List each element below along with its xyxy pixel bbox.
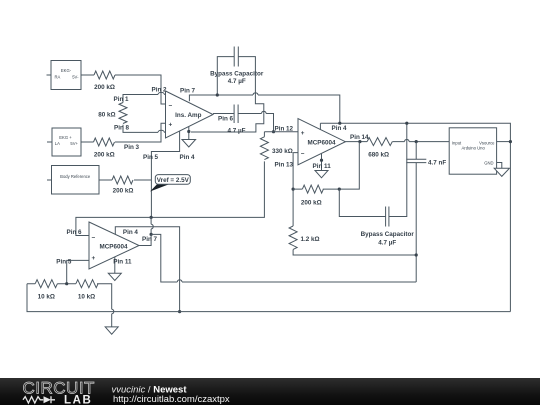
wire 5V bottom rail (27, 284, 510, 312)
svg-text:LA: LA (55, 141, 60, 146)
junction dot C1/Pin7 (216, 93, 219, 96)
wire 330k bottom to Vref rail (151, 161, 264, 217)
wire C2 to U2 + input (hops ground jog) (238, 114, 273, 132)
logo resistor squiggle (23, 397, 43, 403)
svg-text:MCP6004: MCP6004 (307, 140, 335, 147)
wire Pin 1 (80k top to inverting node) (123, 95, 171, 103)
wire 4.7nF bottom leg to Vref rail (415, 163, 417, 282)
svg-text:Pin 6: Pin 6 (218, 116, 234, 123)
wire U2 output Pin 14 (345, 134, 369, 141)
svg-text:LAB: LAB (64, 395, 92, 405)
junction dot U3 supply/5V rail (178, 310, 181, 313)
resistor R6 680k (367, 138, 392, 159)
wire Pin 8 (80k bottom to non-inverting node) (123, 125, 171, 133)
FOOTER (0, 378, 540, 405)
svg-text:Vref = 2.5V: Vref = 2.5V (157, 177, 190, 184)
svg-text:Pin 11: Pin 11 (313, 163, 332, 170)
junction dot Vsource/5V rail (509, 140, 512, 143)
voltage source EKG- (RA electrode) (47, 61, 82, 90)
wire Vsource to 5V rail (497, 141, 511, 143)
op-amp U1 Ins. Amp (166, 91, 214, 138)
svg-text:200 kΩ: 200 kΩ (301, 200, 322, 207)
svg-text:+: + (169, 122, 173, 129)
svg-text:GND: GND (484, 160, 493, 165)
resistor R1 200k (EKG- input) (94, 71, 115, 91)
capacitor C3 bypass 4.7uF (stage 2) (361, 207, 415, 247)
capacitor C1 bypass 4.7uF (210, 47, 264, 85)
wire hop Vref rail over U3 supply leg (177, 280, 182, 282)
svg-text:MCP6004: MCP6004 (99, 243, 127, 250)
svg-text:4.7 µF: 4.7 µF (378, 240, 396, 247)
svg-text:330 kΩ: 330 kΩ (272, 148, 293, 155)
voltage source EKG+ (LA electrode) (47, 128, 81, 156)
svg-text:Arduino Uno: Arduino Uno (462, 146, 486, 151)
svg-text:80 kΩ: 80 kΩ (98, 112, 115, 119)
junction dot 4.7nF top (415, 140, 418, 143)
junction dot Pin13/200k (292, 188, 295, 191)
svg-text:680 kΩ: 680 kΩ (368, 151, 389, 158)
resistor R10 10k (76, 280, 98, 301)
svg-text:Pin 6: Pin 6 (67, 229, 83, 236)
svg-text:+: + (92, 255, 96, 262)
wire R3 to Pin3 corner (with hop over Pin8 wire) (115, 123, 166, 142)
wire bypass2 right leg up to V+ rail (389, 123, 407, 216)
wire Pin 6 feedback (U3 - input from Vref rail) (67, 217, 152, 236)
svg-text:Pin 7: Pin 7 (142, 236, 158, 243)
junction dot bypass2/V+ rail (405, 122, 408, 125)
wire 4.7nF top leg (415, 142, 417, 160)
svg-text:Body Reference: Body Reference (60, 174, 91, 179)
op-amp U2 MCP6004 (stage 2) (298, 119, 345, 165)
voltage source Body Reference (47, 166, 99, 195)
ground GND3 (Arduino) (494, 163, 509, 177)
svg-text:Pin 11: Pin 11 (113, 258, 132, 265)
junction dot Vref rail / 1.2k wire (415, 253, 418, 256)
resistor R2 80k (gain set) (98, 103, 127, 124)
svg-text:200 kΩ: 200 kΩ (113, 188, 134, 195)
wire Pin 13 (U2 - input) (275, 153, 299, 226)
svg-text:Pin 1: Pin 1 (114, 96, 130, 103)
svg-text:200 kΩ: 200 kΩ (94, 151, 115, 158)
flag Vref = 2.5V (150, 175, 190, 192)
wire Pin 5 (U3 + input from divider) (56, 258, 89, 283)
wire 1.2k bottom to Vref rail (293, 250, 416, 256)
svg-text:10 kΩ: 10 kΩ (38, 294, 55, 301)
svg-text:Pin 12: Pin 12 (275, 126, 294, 133)
wire 680k to Arduino Input (hops bypass vertical) (392, 141, 449, 143)
wire hop over output wire (262, 111, 267, 113)
ground GND5 (divider bottom) (105, 327, 118, 334)
svg-text:4.7 nF: 4.7 nF (428, 159, 446, 166)
wire U1 output Pin 6 to C2 (213, 113, 234, 115)
svg-text:EKG +: EKG + (59, 135, 72, 140)
junction dot output/feedback (358, 140, 361, 143)
resistor R3 200k (EKG+ input) (94, 138, 115, 158)
svg-text:http://circuitlab.com/czaxtpx: http://circuitlab.com/czaxtpx (113, 394, 230, 405)
svg-text:200 kΩ: 200 kΩ (94, 84, 115, 91)
wire hop over bypass riser (405, 140, 410, 142)
wire 330k top lead (263, 132, 265, 137)
resistor R7 200k (feedback) (301, 185, 324, 206)
wire EKG+ box to R3 (81, 141, 94, 143)
junction dot Vref rail left (150, 216, 153, 219)
resistor R9 10k (35, 280, 57, 301)
svg-text:Pin 5: Pin 5 (56, 258, 72, 265)
svg-text:+: + (301, 130, 305, 137)
wire EKG- box to R1 (81, 74, 94, 76)
wire U3 output Pin 7 (139, 234, 158, 245)
wire R4 to Vref node (134, 179, 151, 181)
ground GND1 (U1 Pin 4) (180, 127, 196, 162)
capacitor C4 4.7nF (406, 159, 446, 166)
svg-text:Input: Input (452, 140, 462, 145)
junction dot U3 output node (150, 233, 153, 236)
svg-text:5V+: 5V+ (70, 141, 78, 146)
svg-text:4.7 µF: 4.7 µF (228, 78, 246, 85)
logo diode symbol (44, 396, 52, 403)
wire R1 to Pin2 corner (with hop over Pin1 wire) (115, 75, 166, 104)
wire Vref rail down (hops U3 supply wire) (150, 217, 152, 234)
svg-text:Pin 7: Pin 7 (180, 88, 196, 95)
resistor R5 330k (bias to Vref) (260, 137, 292, 160)
wire Pin 4 (U2 V+ supply rail to Arduino Vsource) (320, 123, 510, 311)
capacitor C2 4.7uF (AC coupling) (218, 105, 246, 135)
svg-text:10 kΩ: 10 kΩ (78, 294, 95, 301)
svg-text:Pin 13: Pin 13 (275, 161, 294, 168)
svg-text:5V-: 5V- (72, 74, 79, 79)
svg-text:4.7 µF: 4.7 µF (228, 127, 246, 134)
ground GND4 (U3 Pin 11) (108, 257, 132, 281)
resistor R4 200k (body reference) (112, 176, 133, 195)
svg-text:Bypass Capacitor: Bypass Capacitor (361, 231, 415, 238)
junction dot feedback/bypass2 (338, 188, 341, 191)
block Arduino Uno (449, 128, 496, 174)
ground GND2 (U2 Pin 11) (313, 154, 332, 178)
wire 200k feedback to output (293, 142, 359, 190)
svg-text:Pin 4: Pin 4 (123, 229, 139, 236)
svg-text:1.2 kΩ: 1.2 kΩ (301, 236, 320, 243)
svg-text:−: − (301, 150, 305, 157)
svg-text:RA: RA (55, 74, 61, 79)
junction dot Pin7 supply joins V+ rail (338, 122, 341, 125)
svg-text:Pin 4: Pin 4 (332, 125, 348, 132)
junction dot divider midpoint (65, 282, 68, 285)
resistor R8 1.2k (289, 226, 319, 249)
op-amp U3 MCP6004 (Vref buffer) (89, 222, 139, 269)
svg-text:Pin 8: Pin 8 (114, 125, 130, 132)
svg-text:Pin 3: Pin 3 (124, 144, 140, 151)
wire hop divider-gnd over 5V rail (112, 309, 114, 314)
svg-text:Pin 4: Pin 4 (180, 154, 196, 161)
svg-text:−: − (169, 103, 173, 110)
wire BodyRef box to R4 (99, 179, 112, 181)
wire bypass2 left leg (339, 189, 385, 216)
wire Vref rail (buffer output to right side) (151, 234, 416, 282)
wire C1 left to Pin7 junction (217, 57, 234, 95)
wire divider chain (27, 284, 112, 327)
wire hop Vref over U3 supply (151, 224, 153, 229)
svg-text:Ins. Amp: Ins. Amp (175, 112, 202, 119)
wire Pin 12 (U2 + input) (264, 126, 298, 133)
junction dot Pin 12 node (272, 130, 275, 133)
wire C1 right down to Pin4 ground net (hops Pin7 wire and output wire) (191, 57, 264, 132)
svg-text:Pin 5: Pin 5 (143, 154, 159, 161)
svg-text:EKG-: EKG- (61, 68, 72, 73)
wire U3 Pin 4 supply to 5V rail (115, 227, 179, 312)
wire U1 Pin 5 (ref) down to Vref rail (143, 131, 180, 217)
wire Pin 7 (V+ supply of U1, runs to MCP6004 V+ rail) (180, 88, 340, 124)
svg-text:−: − (92, 235, 96, 242)
